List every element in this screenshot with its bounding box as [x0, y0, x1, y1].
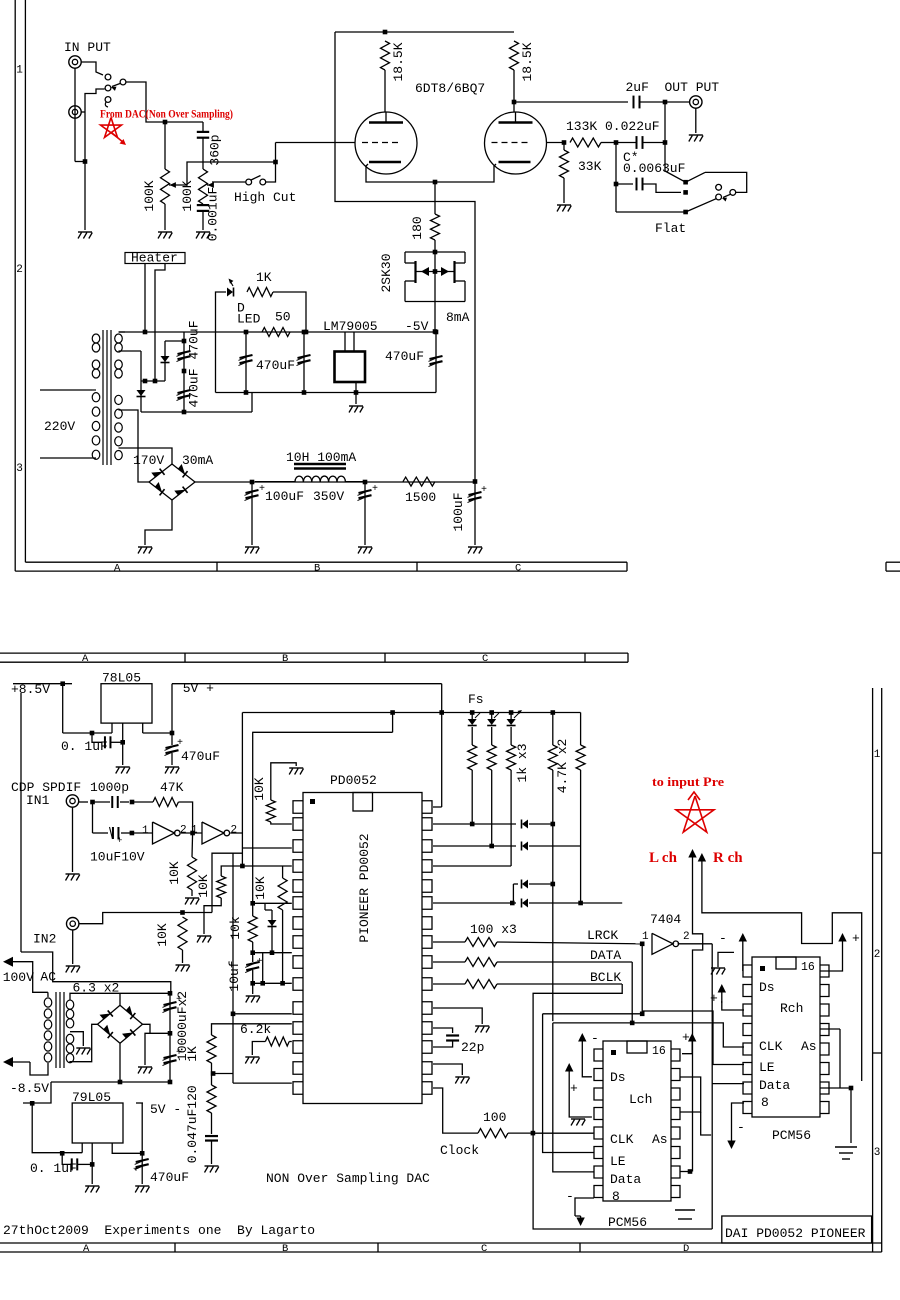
svg-text:From DAC(Non Over Sampling): From DAC(Non Over Sampling): [100, 109, 233, 121]
svg-text:100uF: 100uF: [451, 492, 466, 531]
svg-text:+: +: [481, 485, 487, 496]
svg-text:+: +: [259, 484, 265, 495]
svg-text:IN2: IN2: [33, 932, 56, 947]
svg-text:0.001uF: 0.001uF: [206, 187, 221, 242]
svg-text:B: B: [282, 653, 288, 665]
svg-text:Data: Data: [610, 1172, 641, 1187]
svg-text:100K: 100K: [142, 180, 157, 211]
svg-text:+: +: [176, 995, 182, 1006]
svg-text:A: A: [114, 562, 121, 574]
svg-text:5V +: 5V +: [183, 681, 214, 696]
svg-text:470uF: 470uF: [256, 358, 295, 373]
svg-text:As: As: [652, 1132, 668, 1147]
svg-text:0. 1uF: 0. 1uF: [30, 1161, 77, 1176]
svg-text:Lch: Lch: [629, 1092, 652, 1107]
svg-text:22p: 22p: [461, 1040, 484, 1055]
svg-text:OUT PUT: OUT PUT: [665, 80, 720, 95]
svg-text:0.022uF: 0.022uF: [605, 119, 660, 134]
svg-text:1k x3: 1k x3: [515, 743, 530, 782]
svg-text:79L05: 79L05: [72, 1090, 111, 1105]
svg-text:1: 1: [642, 931, 649, 943]
svg-text:Flat: Flat: [655, 221, 686, 236]
svg-text:D: D: [683, 1243, 689, 1255]
svg-text:+: +: [133, 1165, 139, 1176]
svg-text:16: 16: [652, 1045, 666, 1058]
svg-text:C: C: [482, 653, 488, 665]
svg-text:8: 8: [761, 1095, 769, 1110]
svg-text:350V: 350V: [313, 489, 344, 504]
svg-text:100 x3: 100 x3: [470, 922, 517, 937]
svg-text:PCM56: PCM56: [608, 1215, 647, 1230]
svg-text:L ch: L ch: [649, 850, 678, 866]
svg-text:BCLK: BCLK: [590, 970, 621, 985]
svg-text:10K: 10K: [167, 861, 182, 885]
svg-text:3: 3: [16, 463, 23, 475]
svg-text:10H 100mA: 10H 100mA: [286, 450, 356, 465]
svg-text:10K: 10K: [252, 777, 267, 801]
svg-text:0.047uF: 0.047uF: [185, 1109, 200, 1164]
svg-text:1000p: 1000p: [90, 780, 129, 795]
svg-text:470uF: 470uF: [150, 1170, 189, 1185]
svg-text:6.2k: 6.2k: [240, 1022, 271, 1037]
svg-text:133K: 133K: [566, 119, 597, 134]
svg-text:A: A: [82, 653, 89, 665]
svg-text:+: +: [682, 1030, 690, 1045]
svg-text:PD0052: PD0052: [330, 773, 377, 788]
svg-text:2: 2: [683, 931, 690, 943]
svg-text:Heater: Heater: [131, 251, 178, 266]
svg-text:100: 100: [483, 1110, 506, 1125]
svg-text:220V: 220V: [44, 419, 75, 434]
svg-text:C: C: [515, 562, 521, 574]
svg-text:100V: 100V: [3, 970, 34, 985]
svg-text:Fs: Fs: [468, 692, 484, 707]
svg-text:PCM56: PCM56: [772, 1128, 811, 1143]
svg-text:LE: LE: [759, 1060, 775, 1075]
svg-text:1500: 1500: [405, 490, 436, 505]
svg-text:+: +: [372, 484, 378, 495]
svg-text:+: +: [710, 991, 718, 1006]
svg-text:LRCK: LRCK: [587, 928, 618, 943]
svg-text:IN1: IN1: [26, 793, 50, 808]
svg-text:Rch: Rch: [780, 1001, 803, 1016]
svg-text:-: -: [591, 1031, 599, 1046]
svg-text:470uF: 470uF: [181, 749, 220, 764]
svg-text:0.0063uF: 0.0063uF: [623, 161, 685, 176]
svg-text:6DT8/6BQ7: 6DT8/6BQ7: [415, 81, 485, 96]
svg-text:120: 120: [185, 1085, 200, 1108]
svg-text:1: 1: [874, 749, 881, 761]
svg-text:100K: 100K: [180, 180, 195, 211]
svg-text:2: 2: [180, 825, 187, 837]
svg-text:Clock: Clock: [440, 1143, 479, 1158]
svg-text:R ch: R ch: [713, 850, 743, 866]
svg-text:PIONEER PD0052: PIONEER PD0052: [357, 833, 372, 942]
svg-text:DATA: DATA: [590, 948, 621, 963]
svg-text:1: 1: [16, 65, 23, 77]
svg-text:to input Pre: to input Pre: [652, 774, 724, 789]
svg-text:+: +: [177, 738, 183, 749]
svg-text:10K: 10K: [196, 874, 211, 898]
svg-text:2uF: 2uF: [626, 80, 649, 95]
svg-text:5V -: 5V -: [150, 1102, 181, 1117]
svg-text:2: 2: [16, 264, 23, 276]
svg-text:Ds: Ds: [610, 1070, 626, 1085]
svg-text:2: 2: [231, 825, 238, 837]
svg-text:LED: LED: [237, 312, 261, 327]
svg-text:78L05: 78L05: [102, 671, 141, 686]
svg-text:C: C: [481, 1243, 487, 1255]
svg-text:4.7K x2: 4.7K x2: [555, 739, 570, 794]
svg-text:CLK: CLK: [759, 1039, 783, 1054]
svg-text:470uF: 470uF: [385, 349, 424, 364]
svg-text:16: 16: [801, 961, 815, 974]
svg-text:8mA: 8mA: [446, 310, 470, 325]
svg-text:-: -: [566, 1189, 574, 1204]
svg-text:+: +: [257, 957, 263, 968]
svg-text:18.5K: 18.5K: [520, 42, 535, 81]
svg-text:2: 2: [874, 949, 881, 961]
svg-text:27thOct2009 Experiments one: 27thOct2009 Experiments one By Lagarto: [3, 1223, 315, 1238]
svg-text:10K: 10K: [253, 876, 268, 900]
svg-text:A: A: [83, 1243, 90, 1255]
svg-text:NON Over Sampling DAC: NON Over Sampling DAC: [266, 1171, 430, 1186]
svg-text:470uF: 470uF: [187, 320, 202, 359]
svg-text:170V: 170V: [133, 453, 164, 468]
svg-text:As: As: [801, 1039, 817, 1054]
svg-text:B: B: [314, 562, 320, 574]
svg-text:-8.5V: -8.5V: [10, 1081, 49, 1096]
svg-text:7404: 7404: [650, 912, 681, 927]
svg-text:180: 180: [410, 216, 425, 239]
svg-text:1K: 1K: [256, 270, 272, 285]
svg-text:-: -: [719, 931, 727, 946]
svg-text:30mA: 30mA: [182, 453, 213, 468]
svg-text:CLK: CLK: [610, 1132, 634, 1147]
svg-text:360p: 360p: [208, 134, 223, 165]
svg-text:10k: 10k: [228, 916, 243, 940]
svg-text:50: 50: [275, 310, 291, 325]
svg-text:B: B: [282, 1243, 288, 1255]
svg-text:-: -: [737, 1120, 745, 1135]
svg-text:+: +: [570, 1081, 578, 1096]
svg-text:1: 1: [142, 825, 149, 837]
svg-text:+: +: [852, 931, 860, 946]
svg-text:0. 1uF: 0. 1uF: [61, 739, 108, 754]
svg-text:10uF10V: 10uF10V: [90, 850, 145, 865]
svg-text:IN PUT: IN PUT: [64, 40, 111, 55]
svg-text:Ds: Ds: [759, 980, 775, 995]
svg-text:10uf: 10uf: [227, 960, 242, 991]
svg-text:Data: Data: [759, 1078, 790, 1093]
svg-text:High Cut: High Cut: [234, 190, 296, 205]
svg-text:+: +: [117, 836, 122, 846]
svg-text:+: +: [176, 1048, 182, 1059]
svg-text:-5V: -5V: [405, 319, 429, 334]
svg-text:100uF: 100uF: [265, 489, 304, 504]
svg-text:LM79005: LM79005: [323, 319, 378, 334]
svg-text:470uF: 470uF: [187, 368, 202, 407]
svg-text:33K: 33K: [578, 159, 602, 174]
svg-text:10K: 10K: [155, 923, 170, 947]
svg-text:47K: 47K: [160, 780, 184, 795]
svg-text:18.5K: 18.5K: [391, 42, 406, 81]
svg-text:3: 3: [874, 1147, 881, 1159]
svg-text:LE: LE: [610, 1154, 626, 1169]
svg-text:2SK30: 2SK30: [379, 253, 394, 292]
svg-text:DAI PD0052 PIONEER: DAI PD0052 PIONEER: [725, 1226, 866, 1241]
svg-text:8: 8: [612, 1189, 620, 1204]
